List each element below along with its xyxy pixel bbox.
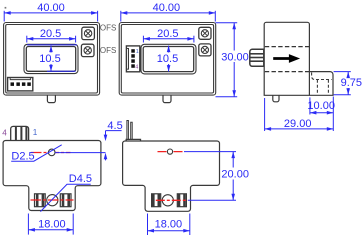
view1 window outer bbox=[24, 44, 78, 73]
svg-text:18.00: 18.00 bbox=[155, 218, 183, 230]
view2 window outer bbox=[141, 44, 196, 74]
view2 window inner bbox=[143, 47, 194, 72]
view3 dim 10.00 line bbox=[310, 97, 333, 132]
svg-text:OFS: OFS bbox=[100, 46, 116, 55]
view2 body outer bbox=[119, 23, 216, 96]
view2 dim 10.5 line bbox=[168, 46, 170, 72]
view5 top hole bbox=[167, 149, 172, 154]
view3 bottom foot bbox=[273, 95, 279, 101]
view3 hidden line 2 bbox=[265, 71, 310, 73]
view5 right slot bbox=[177, 194, 186, 207]
svg-text:OFS: OFS bbox=[100, 24, 116, 33]
view2 body inner bbox=[121, 25, 213, 94]
view5 dim 20.00 line bbox=[184, 152, 236, 201]
view4 right slot bbox=[60, 194, 71, 207]
view1 trimmer square 1 bbox=[82, 27, 95, 39]
view3 side connector block bbox=[250, 49, 264, 66]
svg-text:9.75: 9.75 bbox=[341, 77, 362, 89]
view1 connector lip bbox=[10, 78, 30, 80]
view5 pin 2 bbox=[131, 122, 133, 139]
svg-text:20.00: 20.00 bbox=[221, 168, 249, 180]
view1 window inner bbox=[26, 47, 75, 72]
view1 connector pin 4 bbox=[27, 82, 31, 86]
svg-text:D4.5: D4.5 bbox=[69, 173, 92, 185]
view2 trimmer square 2 bbox=[199, 44, 211, 56]
view4 hole D2.5 bbox=[48, 149, 55, 156]
view3 body bbox=[264, 22, 309, 95]
view5 pin 1 bbox=[127, 121, 128, 140]
view4 left slot bbox=[35, 194, 46, 207]
view2 connector body bbox=[126, 46, 139, 72]
view4 D4.5 centerline bbox=[31, 199, 74, 201]
view5 top hole centerline bbox=[158, 151, 185, 153]
view2 dim 30.00 line bbox=[216, 23, 238, 97]
view4 outline bbox=[3, 141, 101, 211]
view2 connector pin 2 bbox=[131, 54, 135, 58]
view1 bottom tab bbox=[47, 95, 55, 102]
view1 dim 40.00 line bbox=[4, 11, 97, 22]
svg-text:4.5: 4.5 bbox=[107, 120, 122, 132]
view4 hole D4.5 bbox=[47, 195, 58, 206]
view1 dim 20.5 line bbox=[27, 36, 76, 43]
view1 body outer bbox=[4, 23, 100, 96]
view5 center hole bbox=[162, 195, 173, 206]
svg-text:30.00: 30.00 bbox=[221, 51, 249, 63]
svg-text:10.00: 10.00 bbox=[307, 100, 335, 112]
view5 dim 18.00 line bbox=[148, 214, 190, 236]
view3 dim 9.75 line bbox=[334, 72, 351, 95]
svg-text:4: 4 bbox=[2, 128, 7, 137]
view3 hidden counterbore bbox=[312, 73, 332, 95]
svg-text:18.00: 18.00 bbox=[38, 218, 66, 230]
view4 dim 18.00 line bbox=[28, 214, 73, 235]
view1 connector pin 2 bbox=[16, 82, 20, 86]
view3 hidden line 1 bbox=[265, 46, 310, 48]
view1 connector pin 3 bbox=[22, 82, 26, 86]
view3 dim 29.00 line bbox=[265, 98, 334, 131]
view3 current direction arrow bbox=[273, 54, 300, 63]
view1 dim 10.5 line bbox=[27, 45, 77, 72]
view4 D2.5 centerline bbox=[31, 152, 71, 154]
view4 connector shroud bbox=[11, 126, 29, 140]
view1 connector body bbox=[8, 78, 33, 91]
view5 slot centerline bbox=[156, 199, 188, 201]
svg-text:10.5: 10.5 bbox=[157, 53, 178, 65]
view1 connector pin 1 bbox=[11, 82, 15, 86]
view4 leader to 4.5 dim bbox=[55, 152, 106, 154]
view5 left slot bbox=[152, 194, 161, 207]
svg-text:4: 4 bbox=[135, 65, 138, 71]
dim 4.5 lines bbox=[106, 131, 122, 161]
view2 dim 20.5 line bbox=[143, 36, 194, 43]
view5 connector base bbox=[126, 139, 140, 141]
view2 connector pin 4 bbox=[131, 64, 135, 68]
view2 connector lip bbox=[127, 49, 129, 70]
svg-text:1: 1 bbox=[136, 49, 139, 55]
view2 dim 40.00 line bbox=[121, 11, 216, 22]
view5 outline bbox=[123, 141, 220, 211]
view2 bottom tab bbox=[163, 95, 171, 102]
svg-text:29.00: 29.00 bbox=[284, 118, 312, 130]
view2 connector pin 3 bbox=[131, 59, 135, 63]
view1 body inner bbox=[6, 25, 98, 94]
svg-text:1: 1 bbox=[33, 128, 38, 137]
svg-text:D2.5: D2.5 bbox=[11, 150, 34, 162]
view2 connector pin 1 bbox=[131, 49, 135, 53]
view2 trimmer square 1 bbox=[199, 27, 211, 39]
svg-text:10.5: 10.5 bbox=[39, 53, 60, 65]
view1 trimmer square 2 bbox=[81, 44, 94, 56]
view3 step bbox=[309, 72, 333, 96]
stray plot dot bbox=[5, 7, 7, 9]
